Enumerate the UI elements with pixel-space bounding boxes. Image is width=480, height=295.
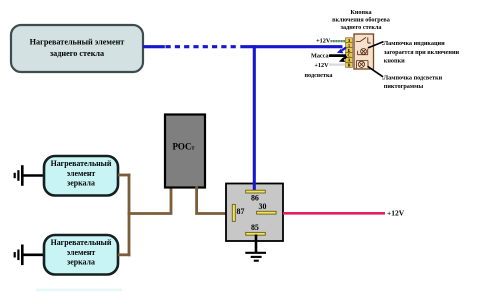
- wire: blue vertical drop to relay pin 86: [253, 45, 256, 190]
- wire: black mirror1 to ground G1: [23, 174, 45, 177]
- wire: brown bus to fuse РОСт left leg: [128, 186, 171, 214]
- svg-text:В: В: [348, 63, 351, 68]
- label: button title (Кнопка включения обогрева заднего стекла): [332, 9, 390, 31]
- label: +12V (button main feed): [316, 38, 331, 45]
- svg-text:Нагревательный элемент: Нагревательный элемент: [30, 38, 125, 47]
- relay pin 86 terminal: [246, 190, 266, 193]
- heating element: rear window (Нагревательный элемент заднего стекла): [11, 25, 143, 72]
- svg-text:зеркала: зеркала: [67, 258, 95, 267]
- svg-text:+12V: +12V: [314, 62, 329, 69]
- svg-text:Масса: Масса: [311, 52, 329, 59]
- label: backlight lamp text: [382, 74, 443, 90]
- svg-text:.Лампочка индикации: .Лампочка индикации: [382, 40, 445, 47]
- pin label 85: [251, 223, 259, 232]
- heating element: mirror 2 (Нагревательный элемент зеркала): [44, 235, 118, 275]
- pin label 86: [251, 193, 259, 202]
- wire: blue dashed section: [166, 45, 236, 48]
- wire: brown stub mirror1 to bus: [118, 174, 130, 177]
- button switch contact symbol: [356, 37, 371, 43]
- relay pin 85 terminal: [246, 232, 266, 235]
- wire: green striped +12V to pin 1: [331, 40, 346, 42]
- ground G3 (relay): [245, 253, 266, 261]
- svg-text:30: 30: [259, 202, 267, 211]
- svg-text:заднего стекла: заднего стекла: [341, 24, 382, 31]
- button backlight lamp (лампочка подсветки): [357, 61, 369, 69]
- artifact: faint box ghost under mirror 2: [36, 289, 122, 292]
- wire: white +12V podsvetka to pin 6: [329, 63, 346, 65]
- ground G1 (top mirror element): [15, 165, 23, 186]
- svg-text:Кнопка: Кнопка: [350, 9, 371, 16]
- svg-text:загорается при включении: загорается при включении: [384, 49, 460, 56]
- svg-text:РОСт: РОСт: [172, 142, 194, 152]
- relay K1 body: [226, 184, 283, 242]
- wire: blue solid from rear-window heater: [143, 45, 165, 48]
- svg-text:86: 86: [251, 193, 259, 202]
- pin label 87: [237, 207, 245, 216]
- wire: pink +12V from relay pin 30: [283, 212, 385, 215]
- fuse РОСт: [165, 115, 205, 188]
- label: +12V подсветка: [304, 62, 332, 79]
- svg-text:подсветка: подсветка: [304, 72, 332, 79]
- relay pin 30 terminal: [257, 211, 277, 214]
- svg-text:элемент: элемент: [67, 169, 96, 178]
- wire: black mirror2 to ground G2: [23, 254, 45, 257]
- button S1 body: [354, 34, 374, 69]
- wire: black arrow into pin 5: [339, 56, 347, 62]
- callout line to backlight lamp label: [368, 66, 384, 77]
- svg-text:.Лампочка подсветки: .Лампочка подсветки: [382, 74, 443, 81]
- svg-text:пиктограммы: пиктограммы: [384, 83, 424, 90]
- button indicator lamp (лампочка индикации): [358, 49, 368, 55]
- heating element: mirror 1 (Нагревательный элемент зеркала): [44, 156, 118, 196]
- svg-text:+12V: +12V: [316, 38, 331, 45]
- svg-text:Нагревательный: Нагревательный: [51, 238, 112, 247]
- label: +12V (right, relay feed): [387, 208, 405, 217]
- button connector pins (З 1 Б С А В): [346, 38, 353, 68]
- svg-text:заднего стекла: заднего стекла: [50, 49, 104, 58]
- wire: black Масса feed: [329, 54, 346, 57]
- wire: brown bus vertical: [128, 174, 131, 257]
- wire: blue arrow into pin 3: [337, 48, 346, 54]
- svg-text:87: 87: [237, 207, 245, 216]
- svg-text:85: 85: [251, 223, 259, 232]
- ground G2 (bottom mirror element): [15, 245, 23, 266]
- svg-text:+12V: +12V: [387, 208, 405, 217]
- svg-text:кнопки: кнопки: [384, 57, 405, 64]
- callout line to indicator lamp label: [368, 42, 384, 48]
- wire: brown fuse right leg to relay pin 87: [197, 186, 228, 214]
- svg-text:элемент: элемент: [67, 248, 96, 257]
- pin label 30: [259, 202, 267, 211]
- wire: blue solid to button connector: [240, 45, 342, 48]
- label: Масса: [311, 52, 329, 59]
- svg-text:зеркала: зеркала: [67, 179, 95, 188]
- relay pin 87 terminal: [232, 204, 235, 221]
- svg-text:Нагревательный: Нагревательный: [51, 159, 112, 168]
- wire: brown stub mirror2 to bus: [118, 253, 130, 256]
- wire: black from relay pin 85 to ground G3: [255, 235, 258, 254]
- svg-text:включения обогрева: включения обогрева: [332, 17, 390, 24]
- label: indicator lamp text: [382, 40, 460, 64]
